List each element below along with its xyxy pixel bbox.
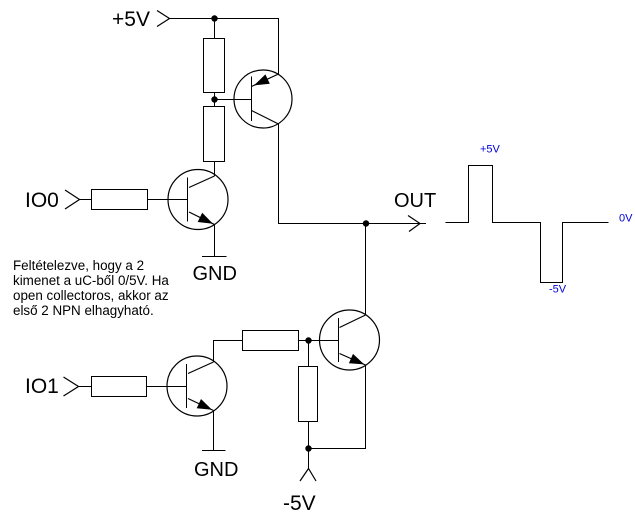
resistor R5 xyxy=(299,367,318,422)
junction dot +5V rail xyxy=(211,15,217,21)
wire IO1 to R6 xyxy=(79,386,92,388)
connector chevron IO1 xyxy=(64,377,79,396)
wire Q4 collector up to OUT node xyxy=(365,224,367,316)
connector chevron IO0 xyxy=(65,190,80,209)
transistor Q3 (NPN) xyxy=(167,356,227,416)
wire +5V rail down to Q1 emitter xyxy=(278,19,280,75)
wire Q1 collector down to OUT node xyxy=(279,124,427,224)
arrowhead OUT xyxy=(408,216,420,232)
resistor R6 xyxy=(92,377,147,397)
resistor R2 xyxy=(204,107,225,162)
connector chevron -5V xyxy=(300,469,316,482)
wire Q3 collector up to R4 xyxy=(214,341,243,363)
resistor R4 xyxy=(243,331,299,351)
wire IO0 to R3 xyxy=(80,199,92,201)
svg-text:GND: GND xyxy=(194,459,238,481)
svg-text:-5V: -5V xyxy=(283,492,316,515)
svg-text:-5V: -5V xyxy=(549,284,567,296)
wire R6 to Q3 base xyxy=(147,386,187,388)
transistor Q2 (NPN) xyxy=(168,170,228,230)
svg-text:0V: 0V xyxy=(619,213,633,225)
junction dot OUT node xyxy=(363,220,369,226)
wire Q4 emitter down to -5V node xyxy=(309,365,366,449)
wire R2 to Q2 collector xyxy=(214,162,216,177)
svg-text:+5V: +5V xyxy=(112,8,150,31)
transistor Q4 (NPN) xyxy=(320,310,380,370)
resistor R3 xyxy=(92,190,148,210)
ground symbol GND2 xyxy=(202,450,226,452)
svg-text:GND: GND xyxy=(193,263,237,285)
svg-text:első 2 NPN elhagyható.: első 2 NPN elhagyható. xyxy=(13,303,154,318)
svg-text:kimenet a uC-ből 0/5V. Ha: kimenet a uC-ből 0/5V. Ha xyxy=(13,273,169,288)
wire -5V node down to chevron xyxy=(308,449,310,469)
junction dot -5V node xyxy=(305,445,311,451)
waveform trace xyxy=(446,166,609,283)
ground symbol GND1 xyxy=(202,256,227,258)
wire R3 to Q2 base xyxy=(148,199,188,201)
svg-text:IO0: IO0 xyxy=(25,189,59,212)
wire +5V rail horizontal xyxy=(170,18,280,20)
wire R4 to Q4 base xyxy=(299,340,339,342)
svg-text:+5V: +5V xyxy=(480,144,501,156)
wire Q2 emitter to ground xyxy=(214,225,216,257)
svg-text:Feltételezve, hogy a 2: Feltételezve, hogy a 2 xyxy=(13,258,144,273)
connector chevron +5V xyxy=(157,11,170,27)
wire R5 down to -5V node xyxy=(308,422,310,449)
svg-text:open collectoros, akkor az: open collectoros, akkor az xyxy=(13,288,169,303)
junction dot between R1 and R2 xyxy=(211,96,217,102)
wire Q2 collector diagonal xyxy=(189,176,215,188)
wire Q3 emitter to ground xyxy=(213,411,215,451)
wire base node down to R5 xyxy=(308,341,310,367)
junction dot base node xyxy=(305,337,311,343)
svg-text:OUT: OUT xyxy=(394,190,436,212)
transistor Q1 (PNP) xyxy=(234,70,292,128)
resistor R1 xyxy=(204,39,225,93)
svg-text:IO1: IO1 xyxy=(25,375,59,398)
wire +5V dot down to R1 xyxy=(214,19,216,39)
wire R1 to R2 xyxy=(214,93,216,107)
wire base of Q1 xyxy=(215,99,252,101)
